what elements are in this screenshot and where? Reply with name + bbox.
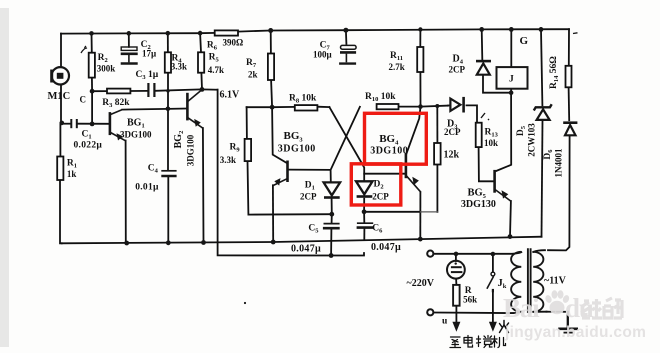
resistor R5 — [198, 52, 204, 72]
diode D3 — [450, 97, 463, 113]
node R10-12k — [435, 104, 439, 108]
node rail-R4 — [166, 31, 171, 36]
transformer core lines — [527, 248, 529, 313]
watermark jingyan chars — [581, 298, 622, 318]
resistor R1 — [57, 157, 63, 181]
svg-text:G: G — [520, 35, 529, 47]
transistor BG5 — [495, 170, 511, 201]
label huo char — [500, 321, 509, 333]
speck near top right — [573, 32, 578, 35]
label zhi dian jiao ji text — [450, 336, 506, 348]
wire D2 bottom row to emitter — [364, 211, 420, 213]
resistor R4 — [165, 52, 171, 72]
relay J box — [497, 67, 528, 89]
resistor R2 — [89, 53, 95, 78]
wire top rail — [61, 32, 215, 35]
resistor R10 — [377, 104, 399, 109]
capacitor C6 — [357, 223, 374, 227]
speck near bottom center — [244, 302, 246, 304]
wire 12k bottom to BG4 emitter — [420, 211, 437, 213]
red highlight box BG4 — [365, 113, 427, 164]
wire BG1 collector row — [122, 109, 186, 110]
svg-text:u: u — [442, 317, 448, 327]
wire transformer primary bottom curl — [512, 312, 522, 313]
wire transformer primary top curl — [513, 252, 521, 254]
svg-text:12k: 12k — [444, 150, 460, 161]
node mic-C1-R1 — [60, 121, 65, 126]
wire BG2 emitter down — [202, 128, 205, 243]
capacitor C4 — [161, 171, 176, 176]
node D2-C6 — [362, 209, 367, 214]
terminal AC upper — [427, 251, 433, 257]
wire BG5 emitter down — [509, 201, 512, 237]
node R2-R3 — [90, 89, 95, 94]
wire transformer secondary top curl — [533, 250, 545, 252]
wire R11 top leg — [419, 30, 421, 48]
svg-text:3.3k: 3.3k — [220, 155, 236, 165]
transistor BG3 — [273, 161, 288, 186]
svg-text:4.7k: 4.7k — [208, 65, 224, 75]
node rail-R5 — [198, 31, 203, 36]
diode D6 — [563, 123, 577, 136]
node bus-BG2e — [201, 240, 206, 245]
wire transformer secondary bottom dashed to ground — [533, 311, 546, 313]
node bus-BG3e — [271, 240, 276, 245]
wire R10 right to R11 node — [399, 106, 449, 107]
svg-text:J: J — [509, 75, 514, 85]
wire BG3 collector drop — [272, 107, 287, 163]
resistor R3 — [107, 89, 130, 94]
resistor R9 — [245, 139, 252, 161]
capacitor C7 electrolytic — [339, 45, 356, 63]
node R2 top leg — [91, 33, 93, 52]
node rail-R2 — [89, 31, 94, 36]
svg-text:10k: 10k — [484, 138, 498, 148]
resistor R8 — [295, 105, 318, 110]
capacitor C2 electrolytic — [121, 47, 138, 64]
watermark baidu logo text — [503, 290, 646, 341]
node R7-R8-BG3 — [270, 105, 275, 110]
node bus-C4 — [166, 240, 171, 245]
svg-text:1N4001: 1N4001 — [554, 148, 564, 177]
svg-text:2.7k: 2.7k — [389, 62, 405, 72]
node bus-BG4e — [418, 237, 423, 242]
wire cross diagonal R10 to BG3 — [331, 107, 360, 182]
capacitor C3 — [148, 83, 154, 97]
wire C6 legs — [363, 199, 365, 223]
transformer T secondary winding — [533, 252, 543, 312]
wire 12k column — [436, 106, 438, 143]
watermark paw — [544, 290, 570, 314]
node rail-R11 — [418, 27, 422, 31]
red highlight box D2 — [351, 164, 401, 205]
svg-text:17µ: 17µ — [142, 49, 157, 59]
svg-text:1k: 1k — [67, 169, 77, 179]
svg-text:~11V: ~11V — [544, 276, 567, 287]
transistor BG1 — [110, 110, 126, 141]
svg-text:R3 82k: R3 82k — [102, 98, 130, 109]
svg-text:0.022µ: 0.022µ — [74, 141, 103, 151]
node rail-D5 — [539, 27, 544, 32]
node rail-D4 — [479, 27, 484, 32]
wire C1 row to BG1 base — [61, 123, 70, 125]
svg-text:3DG100: 3DG100 — [186, 134, 196, 166]
wire D4 column — [481, 29, 484, 59]
wire BG4 emitter down — [419, 192, 421, 239]
node C1-base-BG1 — [90, 122, 95, 127]
node D4-J-BG5 — [509, 90, 514, 95]
wire D2 anode drop — [362, 164, 364, 181]
node bus-BG1e — [124, 241, 129, 246]
svg-text:0.047µ: 0.047µ — [291, 244, 321, 255]
resistor R13 — [476, 123, 482, 147]
svg-text:0.01µ: 0.01µ — [135, 183, 159, 193]
scribble mark near R2 — [81, 46, 87, 53]
wire D3 leads — [448, 105, 449, 107]
wire lamp leads — [455, 254, 457, 261]
svg-text:~220V: ~220V — [407, 278, 435, 289]
node rail-R7 — [268, 28, 273, 33]
wire R2 bottom to C1 node — [91, 91, 93, 124]
wire flipflop supply row y107 — [247, 106, 295, 108]
svg-text:C: C — [80, 95, 87, 105]
node rail-J — [509, 27, 514, 32]
node bus-BG5e — [508, 234, 513, 239]
svg-text:M1C: M1C — [48, 91, 71, 102]
svg-text:2CP: 2CP — [300, 192, 317, 202]
svg-text:2CP: 2CP — [449, 64, 466, 74]
svg-text:56k: 56k — [463, 295, 477, 305]
transformer T primary winding — [511, 252, 521, 312]
svg-text:2CP: 2CP — [444, 127, 461, 137]
node D1-C5 — [329, 212, 334, 217]
svg-text:6.1V: 6.1V — [220, 90, 241, 101]
wire right rail drop to R14 — [568, 29, 570, 66]
wire BG3 emitter down — [272, 185, 274, 242]
svg-text:C3 1µ: C3 1µ — [136, 70, 159, 81]
svg-text:390Ω: 390Ω — [223, 38, 244, 48]
capacitor C1 — [71, 119, 77, 128]
wire R7 column — [270, 31, 272, 54]
arrow terminal u — [452, 322, 460, 332]
diode D5 zener — [534, 104, 552, 120]
svg-text:0.047µ: 0.047µ — [371, 242, 401, 253]
wire R4 column — [167, 33, 169, 52]
arrow terminal huo — [489, 322, 497, 332]
wire AC upper row — [434, 253, 513, 255]
wire BG4 collector — [407, 107, 421, 154]
wire BG5 collector drop — [496, 93, 511, 171]
node lowwire-C5 — [329, 253, 334, 258]
wire BG1 emitter down — [125, 141, 127, 244]
wire cross diagonal R8 to BG4 — [329, 107, 362, 164]
wire BG4 base row — [364, 173, 405, 175]
svg-text:R14 56Ω: R14 56Ω — [549, 56, 560, 89]
svg-text:2CP: 2CP — [372, 192, 389, 202]
diode D1 — [324, 182, 341, 197]
wire R13 bottom to BG5 base — [479, 147, 494, 181]
wire bottom bus — [62, 237, 542, 244]
wire C2 top leg — [128, 33, 130, 47]
svg-text:300k: 300k — [97, 64, 116, 74]
wire C5 C6 lower return — [218, 90, 364, 256]
wire C5 leg down — [331, 199, 333, 223]
capacitor C5 — [323, 224, 340, 229]
wire D5 column — [541, 29, 542, 105]
svg-text:3.3k: 3.3k — [171, 62, 187, 72]
svg-text:2CW103: 2CW103 — [527, 123, 537, 157]
wire BG3 base row — [288, 169, 331, 171]
wire left column — [60, 34, 62, 67]
transistor BG4 — [406, 154, 421, 192]
resistor R6 — [215, 30, 238, 35]
node AC-Jk — [491, 252, 496, 257]
tick mark near R13 — [481, 113, 489, 120]
microphone M1C — [52, 67, 69, 84]
svg-text:3DG100: 3DG100 — [120, 130, 152, 140]
wire AC lower row — [434, 312, 514, 315]
lamp neon — [447, 261, 465, 279]
wire bias row y91 — [92, 90, 107, 92]
diode D4 — [476, 61, 491, 75]
wire R9 top jog — [246, 107, 248, 139]
wire Jk leads — [492, 254, 494, 272]
transistor BG2 — [187, 90, 203, 129]
ground symbol — [558, 329, 578, 333]
svg-text:2k: 2k — [248, 70, 258, 80]
svg-text:R8 10k: R8 10k — [289, 94, 317, 105]
wire R5 column — [199, 33, 202, 52]
svg-text:R10 10k: R10 10k — [365, 92, 396, 103]
resistor R7 — [268, 54, 274, 81]
wire relay J leads — [510, 29, 512, 67]
node AC-lamp — [454, 252, 459, 257]
svg-text:Bai: Bai — [503, 293, 540, 323]
node BG1-collector — [166, 107, 171, 112]
node R5-BG2-collector — [200, 87, 205, 92]
node rail-C2 — [127, 31, 132, 36]
svg-text:100µ: 100µ — [313, 50, 333, 60]
scan edge band — [0, 8, 9, 347]
resistor R14 — [566, 66, 572, 88]
wire D6 R14 column — [568, 87, 571, 120]
svg-text:3DG100: 3DG100 — [370, 146, 408, 157]
switch Jk — [487, 272, 495, 292]
wire C7 top leg — [345, 30, 348, 44]
resistor R11 — [417, 47, 423, 72]
svg-text:3DG130: 3DG130 — [461, 199, 496, 210]
svg-text:jingyan.baidu.com: jingyan.baidu.com — [504, 324, 646, 341]
resistor R12 12k — [434, 143, 441, 165]
terminal AC lower — [427, 309, 433, 315]
svg-text:3DG100: 3DG100 — [278, 144, 316, 155]
diode D2 — [356, 181, 373, 196]
node R10-R11-BG4 — [418, 104, 423, 109]
node rail-C7 — [343, 28, 348, 33]
resistor R 56k — [453, 285, 460, 306]
wire R9 bottom to D1 node — [248, 161, 332, 215]
